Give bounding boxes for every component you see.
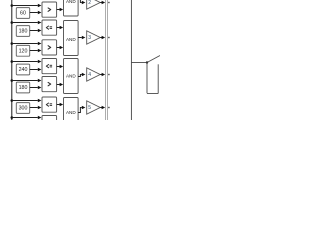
svg-text:5: 5 (88, 105, 91, 111)
svg-text:60: 60 (20, 11, 26, 17)
svg-text:180: 180 (19, 29, 28, 35)
svg-text:2: 2 (88, 0, 91, 6)
svg-text:AND: AND (66, 110, 76, 115)
svg-text:300: 300 (19, 106, 28, 112)
svg-text:120: 120 (19, 48, 28, 54)
svg-text:AND: AND (66, 74, 76, 79)
svg-text:180: 180 (19, 85, 28, 91)
svg-text:4: 4 (88, 72, 91, 78)
svg-text:AND: AND (66, 0, 76, 4)
svg-text:3: 3 (88, 35, 91, 41)
svg-text:240: 240 (19, 67, 28, 73)
svg-text:AND: AND (66, 37, 76, 42)
